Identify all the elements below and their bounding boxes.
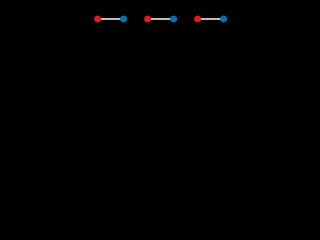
node blue 2	[170, 16, 177, 23]
wire 1	[98, 18, 124, 20]
dumbbell pair 1	[94, 16, 127, 23]
dumbbell pair 3	[194, 16, 227, 23]
node blue 3	[220, 16, 227, 23]
wire 2	[148, 18, 174, 20]
node red 3	[194, 16, 201, 23]
dumbbell pair 2	[144, 16, 177, 23]
node blue 1	[120, 16, 127, 23]
node red 1	[94, 16, 101, 23]
wire 3	[198, 18, 224, 20]
node red 2	[144, 16, 151, 23]
